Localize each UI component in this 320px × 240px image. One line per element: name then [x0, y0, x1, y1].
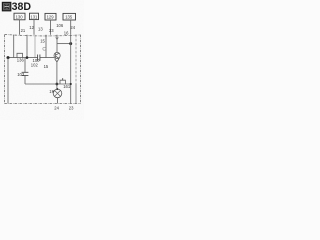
svg-text:24: 24 — [54, 106, 59, 111]
junction dot lamp top — [56, 88, 58, 90]
svg-text:102: 102 — [31, 63, 39, 68]
transistor emitter arrow — [55, 58, 60, 62]
svg-text:33: 33 — [49, 28, 54, 33]
svg-text:103: 103 — [17, 72, 25, 77]
svg-text:13: 13 — [38, 27, 43, 32]
wire horizontal y43.6 — [57, 43, 71, 45]
svg-text:15: 15 — [44, 64, 49, 69]
lead tick left of lamp — [53, 90, 55, 92]
main wire y57.6 — [8, 57, 54, 59]
resistor bump on main wire — [17, 53, 23, 57]
partition dashed line — [75, 35, 77, 84]
bottom rail y84 — [25, 83, 71, 85]
svg-text:135: 135 — [65, 15, 73, 20]
svg-text:106: 106 — [56, 23, 64, 28]
svg-text:136: 136 — [17, 58, 25, 63]
enclosure border left — [4, 35, 6, 104]
wire vertical x35 — [34, 35, 36, 58]
junction dot (70.7,84) — [70, 83, 72, 85]
lamp circle with cross — [53, 89, 62, 98]
enclosure border right — [80, 35, 82, 104]
series capacitor plates x37.6/39.8 — [38, 55, 40, 61]
resistor bump on bottom rail — [60, 80, 65, 84]
junction dot (27,57.6) — [26, 56, 29, 59]
wire vertical x70.7 — [70, 35, 72, 104]
lead from box 129 — [50, 20, 52, 35]
unit box 135 — [63, 13, 76, 20]
svg-text:16: 16 — [64, 31, 69, 36]
wire vertical x57 below transistor — [56, 62, 58, 90]
wire vertical x8 drop — [7, 58, 9, 104]
svg-text:24: 24 — [70, 25, 75, 30]
svg-text:23: 23 — [69, 105, 74, 110]
junction dot (57,84) — [56, 83, 59, 86]
capacitor 103 lower lead — [24, 75, 26, 84]
lead from box 130 — [19, 20, 21, 35]
svg-text:131: 131 — [30, 14, 38, 19]
lead from box 131 — [33, 20, 35, 35]
transistor circle — [54, 52, 60, 58]
junction dot (8,57.6) — [7, 56, 10, 59]
capacitor 103 plates — [22, 72, 29, 75]
unit box 129 — [45, 13, 56, 20]
wire vertical x13.7 — [13, 35, 15, 58]
wire vertical x27 — [26, 35, 28, 58]
junction dot (71,43.6) — [69, 42, 72, 45]
small circle on wire x46 — [43, 47, 46, 50]
svg-text:38D: 38D — [12, 1, 32, 13]
svg-text:12: 12 — [29, 25, 34, 30]
title 図38D — [2, 1, 31, 13]
capacitor 103 lead — [24, 58, 26, 73]
enclosure border top — [5, 34, 81, 36]
wire vertical x46 — [45, 35, 47, 58]
lead from box 135 — [70, 20, 72, 35]
svg-text:161: 161 — [63, 84, 71, 89]
unit box 131 — [30, 13, 39, 19]
tick above bump — [62, 78, 64, 80]
wire vertical x57 with arrowhead — [56, 35, 58, 53]
svg-text:129: 129 — [47, 15, 55, 20]
svg-text:21: 21 — [21, 28, 26, 33]
lamp lower lead — [57, 98, 59, 104]
svg-text:19: 19 — [49, 89, 54, 94]
svg-text:15: 15 — [40, 39, 45, 44]
enclosure border bottom — [5, 103, 81, 105]
svg-text:130: 130 — [16, 14, 24, 19]
unit box 130 — [14, 13, 25, 20]
